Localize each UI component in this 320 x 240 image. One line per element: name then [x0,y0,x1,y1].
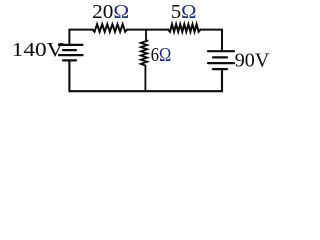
svg-text:20Ω: 20Ω [92,1,129,23]
svg-text:6Ω: 6Ω [151,44,172,66]
battery V1 140V (four plates, long-short-long-short) [59,45,83,61]
svg-text:5Ω: 5Ω [171,1,197,23]
wire: top middle segment between R1 and R2 through node at x=146 [127,29,168,31]
resistor R1 20-ohm zigzag [93,24,128,32]
wire: left vertical stub from battery V1 top up to top-left corner, then top wire to 20-ohm resistor [69,30,93,45]
resistor R3 6-ohm vertical branch with stubs to top node and bottom node [141,30,147,91]
svg-text:140V: 140V [12,39,64,61]
svg-text:90V: 90V [235,50,270,72]
wire: bottom rail from battery V1 bottom plate down, across, and up to battery V2 bottom plate [69,60,222,91]
resistor R2 5-ohm zigzag [168,24,201,32]
wire: top right segment to top-right corner and down to battery V2 top plate [200,30,222,51]
battery V2 90V (four plates, long-short-long-short) [208,51,234,69]
